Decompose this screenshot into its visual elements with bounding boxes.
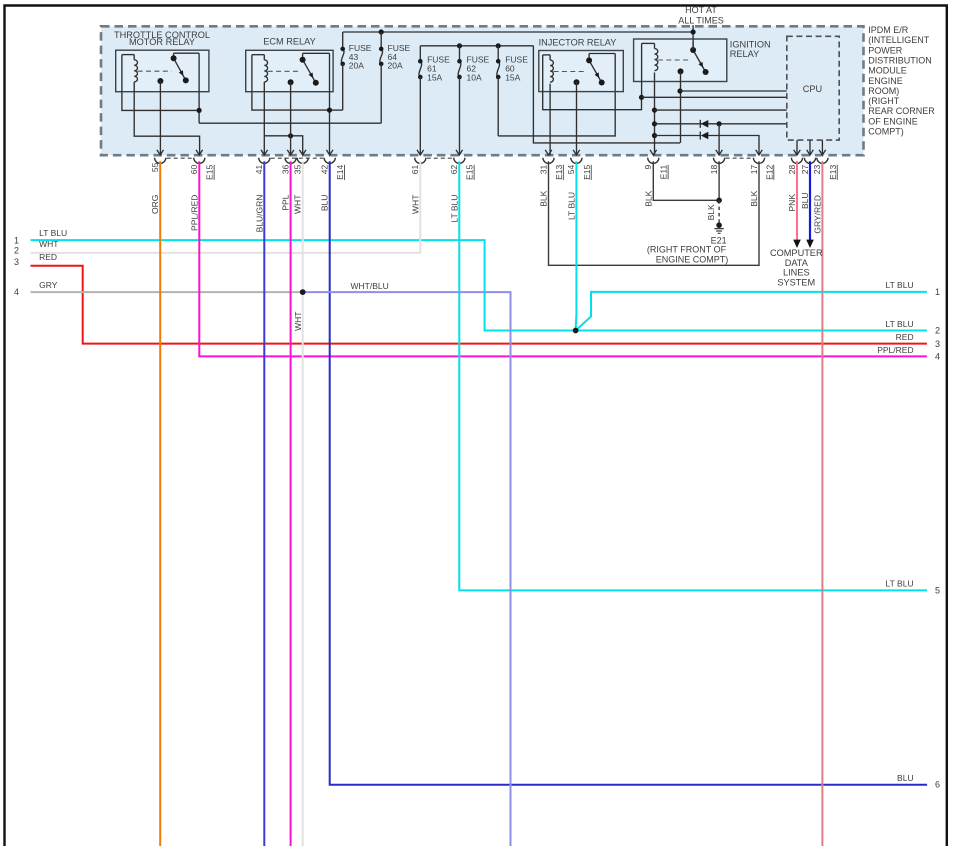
svg-text:27: 27 <box>800 165 810 175</box>
svg-text:18: 18 <box>709 165 719 175</box>
svg-text:61: 61 <box>410 165 420 175</box>
svg-text:17: 17 <box>749 165 759 175</box>
wire: PPL pin 36 drop <box>290 161 292 846</box>
fuse 61 15A <box>418 46 450 155</box>
wire: sub-bus feeding fuses 61 62 60 <box>420 45 533 47</box>
svg-text:BLU/GRN: BLU/GRN <box>254 195 264 233</box>
node: CPU coil-return junction <box>639 95 644 100</box>
wire: CPU output to pin 28 <box>796 140 798 155</box>
svg-text:LT BLU: LT BLU <box>886 579 914 589</box>
node: ECM relay supply junction <box>327 108 332 113</box>
svg-text:COMPT): COMPT) <box>868 127 904 137</box>
svg-text:41: 41 <box>254 165 264 175</box>
wire: WHT row 2 left <box>31 252 421 254</box>
diode D2 line to pin 17 <box>652 133 657 138</box>
svg-text:DISTRIBUTION: DISTRIBUTION <box>868 55 932 65</box>
svg-text:RED: RED <box>896 332 914 342</box>
wire: ORG pin 55 drop <box>159 161 161 846</box>
ground symbol E21 <box>714 229 723 234</box>
wire: CPU output to pin 27 <box>809 140 811 155</box>
fuse 43 20A <box>330 32 372 110</box>
wire: LT BLU pin 62 to right row 5 <box>459 161 927 590</box>
wire: ECM branch to pin 35 <box>264 136 302 155</box>
svg-text:E15: E15 <box>205 165 215 180</box>
wire: BLU pin 27 to computer data lines <box>809 161 811 240</box>
wire: throttle contact to pin 55 <box>159 81 161 155</box>
svg-text:5: 5 <box>935 585 940 595</box>
svg-text:ALL TIMES: ALL TIMES <box>678 16 724 26</box>
svg-text:PPL: PPL <box>281 194 291 210</box>
svg-text:35: 35 <box>293 165 303 175</box>
wire: BLK pin 9 to ground node <box>653 161 719 200</box>
wire: RED row 3 <box>31 266 927 344</box>
svg-text:WHT: WHT <box>293 312 303 331</box>
wire: CPU output to pin 23 <box>821 140 823 155</box>
svg-text:E15: E15 <box>582 165 592 180</box>
node: sub-bus junction fuse 60 <box>496 43 501 48</box>
svg-text:20A: 20A <box>388 60 403 70</box>
svg-text:BLK: BLK <box>706 204 716 220</box>
svg-text:LT BLU: LT BLU <box>39 228 67 238</box>
svg-text:1: 1 <box>14 235 19 245</box>
wire: WHT pin 35 drop <box>302 161 304 846</box>
relay: IGNITION RELAY <box>634 39 771 82</box>
wire: throttle relay switch rail to pin 60 node <box>174 52 200 54</box>
svg-text:WHT: WHT <box>39 239 58 249</box>
svg-text:HOT AT: HOT AT <box>685 5 717 15</box>
svg-text:E15: E15 <box>465 165 475 180</box>
svg-text:55: 55 <box>150 162 160 172</box>
wire: dashed BLK to ground E21 <box>718 200 720 225</box>
svg-text:RELAY: RELAY <box>730 49 759 59</box>
svg-text:2: 2 <box>935 326 940 336</box>
svg-text:INJECTOR RELAY: INJECTOR RELAY <box>539 37 617 47</box>
svg-text:36: 36 <box>280 165 290 175</box>
IPDM E/R dashed component box <box>101 26 864 155</box>
svg-text:6: 6 <box>935 780 940 790</box>
node: ECM pin36 branch junction <box>288 133 293 138</box>
svg-text:4: 4 <box>935 352 940 362</box>
wire: injector coil bottom to pin 31 <box>549 84 551 155</box>
svg-text:BLU: BLU <box>897 773 914 783</box>
relay: THROTTLE CONTROL MOTOR RELAY <box>114 30 210 92</box>
svg-text:MOTOR RELAY: MOTOR RELAY <box>129 37 195 47</box>
relay: ECM RELAY <box>246 37 333 92</box>
svg-text:(RIGHT FRONT OF: (RIGHT FRONT OF <box>647 245 727 255</box>
svg-text:BLU: BLU <box>320 195 330 212</box>
svg-text:10A: 10A <box>467 73 482 83</box>
svg-text:ORG: ORG <box>150 195 160 214</box>
svg-text:SYSTEM: SYSTEM <box>777 278 815 288</box>
fuse 60 15A <box>496 46 528 136</box>
svg-text:20A: 20A <box>349 60 364 70</box>
wire: LT BLU row 1 left <box>31 240 576 330</box>
svg-text:E12: E12 <box>764 165 774 180</box>
svg-text:BLK: BLK <box>643 190 653 206</box>
svg-text:62: 62 <box>449 165 459 175</box>
svg-text:E13: E13 <box>554 165 564 180</box>
wire: GRY row 4 left <box>31 291 303 293</box>
wire: ECM switch rail <box>303 52 330 54</box>
wire: ignition coil bottom to pin 9 <box>654 73 656 156</box>
wire: GRY/RED pin 23 drop <box>821 161 823 846</box>
svg-text:CPU: CPU <box>803 84 822 94</box>
node: throttle relay supply junction <box>197 108 202 113</box>
svg-text:(RIGHT: (RIGHT <box>868 96 899 106</box>
wire: throttle coil left return <box>122 55 199 111</box>
svg-text:WHT/BLU: WHT/BLU <box>351 281 389 291</box>
wire: ignition contact output down <box>680 71 682 142</box>
svg-text:15A: 15A <box>427 73 442 83</box>
wire: BLK pin 31 to pin 17 <box>549 161 760 265</box>
svg-text:(INTELLIGENT: (INTELLIGENT <box>868 35 930 45</box>
wire: injector coil left return to CPU node <box>543 55 642 110</box>
wire: ECM contact to pin 36 <box>290 82 292 155</box>
svg-text:PPL/RED: PPL/RED <box>189 195 199 231</box>
svg-text:3: 3 <box>935 339 940 349</box>
node: WHT to WHT/BLU splice <box>300 289 306 295</box>
wire: BLK pin 18 to ground node <box>718 161 720 200</box>
node: sub-bus junction fuse 62 <box>457 43 462 48</box>
svg-text:RED: RED <box>39 252 57 262</box>
label: IPDM E/R description <box>868 25 935 137</box>
svg-text:4: 4 <box>14 287 19 297</box>
svg-text:ROOM): ROOM) <box>868 86 899 96</box>
svg-text:2: 2 <box>14 245 19 255</box>
wire: throttle coil bottom to pin 60 <box>134 82 199 155</box>
svg-text:31: 31 <box>538 165 548 175</box>
svg-text:E13: E13 <box>828 165 838 180</box>
svg-text:LT BLU: LT BLU <box>886 319 914 329</box>
svg-text:WHT: WHT <box>293 195 303 214</box>
wire: ignition output to CPU <box>680 90 787 92</box>
connector E labels <box>205 165 838 180</box>
fuse 64 20A <box>379 32 411 123</box>
svg-text:COMPUTER: COMPUTER <box>770 248 823 258</box>
svg-text:60: 60 <box>189 165 199 175</box>
wire: WHT/BLU from splice to bottom <box>303 292 511 846</box>
svg-text:WHT: WHT <box>410 195 420 214</box>
svg-text:BLU: BLU <box>800 193 810 210</box>
svg-text:BLK: BLK <box>749 190 759 206</box>
svg-text:IPDM E/R: IPDM E/R <box>868 25 909 35</box>
svg-text:15A: 15A <box>505 73 520 83</box>
label: COMPUTER DATA LINES SYSTEM <box>770 248 823 288</box>
wire: battery feed from HOT AT ALL TIMES down to bus <box>692 25 694 50</box>
svg-text:LINES: LINES <box>783 268 810 278</box>
wire: fuse 64 output to throttle relay node <box>199 122 381 124</box>
svg-text:E11: E11 <box>659 165 669 180</box>
svg-text:ECM RELAY: ECM RELAY <box>263 37 315 47</box>
svg-text:28: 28 <box>787 165 797 175</box>
CPU dashed box <box>787 36 839 140</box>
svg-text:42: 42 <box>320 165 330 175</box>
wire: junction to CPU pin <box>642 96 787 98</box>
svg-text:LT BLU: LT BLU <box>886 280 914 290</box>
wire: injector switch rail from fuse 60 <box>589 53 615 55</box>
connector pin row at IPDM bottom edge <box>155 150 828 164</box>
wire: coil bottom tap to CPU <box>652 108 657 113</box>
wire: top bus from fuse 43 to ignition relay feed <box>343 31 693 33</box>
wire: ECM coil bottom to pin 41 <box>263 82 265 155</box>
pin number labels <box>150 162 822 174</box>
svg-text:E14: E14 <box>335 165 345 180</box>
wire: PNK pin 28 to computer data lines <box>796 161 798 240</box>
node: ground splice <box>716 198 722 204</box>
fuse 62 10A <box>457 46 489 155</box>
svg-text:PNK: PNK <box>787 194 797 212</box>
svg-text:GRY: GRY <box>39 280 58 290</box>
wire color labels <box>150 190 822 233</box>
node: bus junction at fuse 64 <box>379 29 384 34</box>
wire: BLU/GRN pin 41 drop <box>263 161 265 846</box>
svg-text:LT BLU: LT BLU <box>449 195 459 223</box>
node: LT BLU splice <box>573 328 579 334</box>
wire: BLU pin 42 to right row 6 <box>330 161 927 785</box>
wire: junction to right row 2 <box>576 330 927 332</box>
svg-text:3: 3 <box>14 257 19 267</box>
svg-text:PPL/RED: PPL/RED <box>877 345 913 355</box>
svg-text:REAR CORNER: REAR CORNER <box>868 106 935 116</box>
svg-text:GRY/RED: GRY/RED <box>812 195 822 234</box>
wire: ECM coil left return <box>252 55 330 110</box>
wire: ignition coil left return <box>641 43 643 97</box>
relay: INJECTOR RELAY <box>539 37 624 91</box>
svg-text:ENGINE COMPT): ENGINE COMPT) <box>656 255 729 265</box>
wire: WHT pin 61 to row 2 <box>419 161 421 253</box>
svg-text:23: 23 <box>812 165 822 175</box>
wire: LT BLU pin 54 to junction <box>575 161 578 330</box>
svg-text:DATA: DATA <box>785 258 809 268</box>
svg-text:POWER: POWER <box>868 45 903 55</box>
svg-text:OF ENGINE: OF ENGINE <box>868 116 918 126</box>
svg-text:9: 9 <box>643 165 653 170</box>
svg-text:ENGINE: ENGINE <box>868 76 903 86</box>
wire: fuse 60 output to injector relay rail <box>498 91 615 136</box>
wire: PPL/RED pin 60 to right row 4 <box>199 161 927 356</box>
node: ignition output to CPU junction <box>677 88 682 93</box>
node: bus junction at ignition feed <box>691 29 696 34</box>
svg-text:1: 1 <box>935 287 940 297</box>
svg-text:LT BLU: LT BLU <box>566 192 576 220</box>
svg-text:54: 54 <box>566 165 576 175</box>
svg-text:MODULE: MODULE <box>868 66 907 76</box>
svg-text:IGNITION: IGNITION <box>730 39 771 49</box>
svg-text:BLK: BLK <box>539 190 549 206</box>
wire: junction diagonal to right row 1 <box>576 292 927 331</box>
diode D1 line to CPU and pin 18 <box>652 121 657 126</box>
wire: injector contact to pin 54 <box>576 82 578 155</box>
wire: sub-bus drop to ignition relay output <box>533 46 680 143</box>
